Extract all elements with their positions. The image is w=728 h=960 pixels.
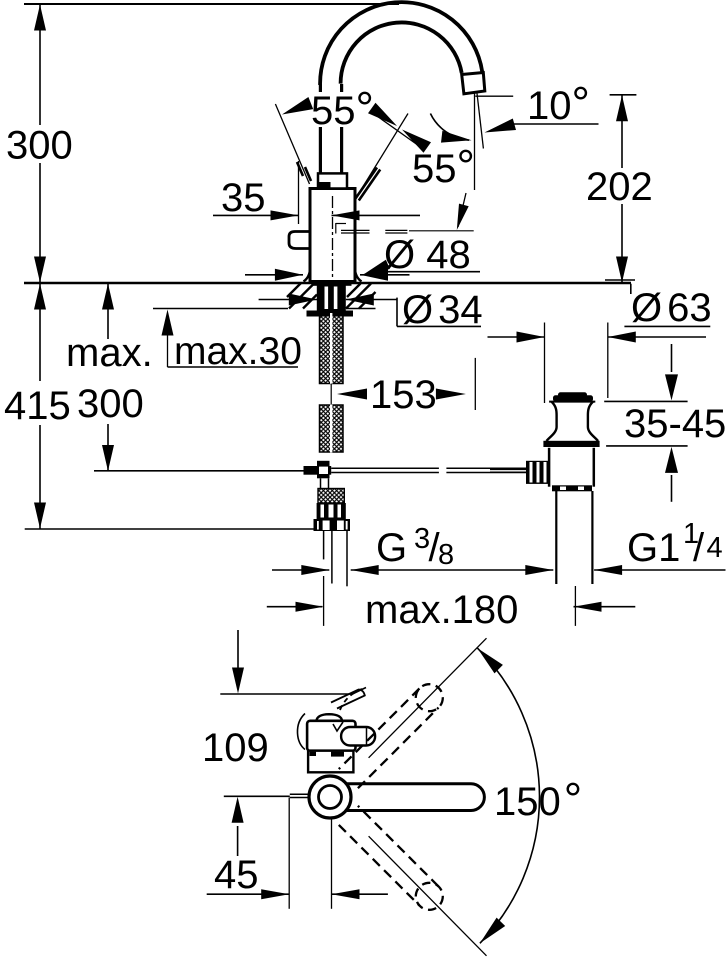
svg-text:/: / [693,526,705,570]
dashed lever upper position [339,684,443,788]
waste flange top line [549,401,595,403]
max180 left extension [323,576,325,626]
label D34 [402,288,483,332]
dimension D48 [245,269,410,281]
label G1 1/4 [627,518,723,570]
label max.30 [174,330,302,373]
body cap [318,173,347,188]
label 55deg middle [412,140,475,192]
angle leg lower [369,836,487,956]
label max. (for 415/300) [66,331,153,375]
svg-text:max.30: max.30 [174,330,302,373]
svg-text:300: 300 [6,124,73,168]
hose stub [318,489,344,504]
lever knob [341,727,375,746]
svg-text:max.: max. [66,331,153,375]
connector nut [314,519,351,531]
waste tailpipe [556,491,592,584]
deck hatch left [287,283,317,309]
faucet body [310,189,355,282]
svg-text:300: 300 [77,382,144,426]
rod into coupling [490,469,526,472]
lever axis reference line (phantom lever edge-on) [336,223,474,234]
spout aerator tip [462,73,485,94]
lower body block [308,751,353,773]
150deg arc [477,648,539,943]
55deg left construction line [275,104,309,184]
swivel outer circle [309,776,351,818]
55deg left dashes [297,162,311,181]
D34 label box [397,298,481,327]
dimension max.300 line [102,283,114,472]
dimension 35-45 top [604,344,687,401]
tilted lever handle [356,168,381,201]
vertical rod below tee [321,478,329,488]
body sketch left arcs [297,714,305,750]
label 300 (second) [77,382,144,426]
55deg middle leader arrow [457,193,469,230]
label 109 [202,726,269,770]
10 deg leader with arrow [485,119,599,133]
label max.180 [365,588,518,632]
dimension 300 line [34,4,46,283]
lever tip outline (raised position) [331,690,365,709]
label G3/8 [376,523,454,571]
10 deg top leg line [475,95,513,97]
dimension 109 [232,630,244,856]
label 415 [4,384,71,428]
label 55deg left [311,82,374,134]
body base skirt [304,268,362,282]
swivel inner circle [319,786,342,809]
lever construction line [356,114,408,199]
D48 label leader [363,260,480,275]
dimension G3/8 [272,565,553,575]
svg-text:G: G [376,526,407,570]
dimension 35 [213,210,420,220]
dimension 35-45 bottom [606,446,688,502]
braided hose upper [320,313,344,384]
D63 extension lines [545,323,608,404]
hose centerline gap [330,384,332,406]
label D48 [384,233,471,277]
stream vertical line [474,93,476,190]
valve dome [316,714,342,721]
45 extension lines [289,798,331,909]
svg-text:45: 45 [214,853,259,897]
svg-text:G1: G1 [627,526,680,570]
base tab [290,794,308,797]
counter top line [24,282,631,284]
rod coupling [526,461,549,484]
label 153 [370,373,437,417]
halo [308,92,378,127]
hose-end reference line (415 bottom) [25,528,314,530]
angle leg upper [369,638,487,758]
svg-text:153: 153 [370,373,437,417]
braided hose lower [320,405,344,453]
label 10deg [527,77,590,129]
base plate [312,281,352,286]
spout riser pipe [320,84,341,173]
55deg middle arc [430,114,471,143]
153 extension line [474,358,476,410]
pop-up rod line (left reference part) [94,470,304,472]
label 35 [221,176,266,220]
dimension max.415 line [34,283,46,529]
center reference line [224,795,290,797]
D63 label box [624,284,710,327]
body centerline [332,196,334,282]
label 45 [214,853,259,897]
dimension 45 [207,889,388,899]
tick line for 202 bottom [605,279,635,281]
label 150deg [494,773,582,825]
55deg cross line [371,112,425,150]
svg-text:55°: 55° [311,82,374,134]
label 300 (top left) [6,124,73,168]
waste body nut [552,485,592,491]
handle hook [289,232,311,249]
max180 right extension [574,586,576,626]
threaded shank [317,285,346,311]
svg-text:max.180: max.180 [365,588,518,632]
body check mark [333,722,343,731]
dimension 153 [337,389,466,400]
svg-text:202: 202 [586,165,653,209]
svg-text:8: 8 [438,539,454,571]
waste body [549,448,594,487]
deck bottom line [153,308,376,310]
label D63 [631,286,712,330]
stream angled line [477,92,484,148]
spout inner curve [341,22,462,83]
supply tube lines [324,531,347,586]
svg-text:35: 35 [221,176,266,220]
dimension max.30 arrow and box [162,310,299,368]
label 35-45 [624,402,726,446]
waste washer [543,441,599,447]
svg-text:415: 415 [4,384,71,428]
mounting washer [307,311,354,317]
label 202 [586,165,653,209]
dimension max.180 [267,602,636,612]
front reference line [220,688,366,695]
rod tee fitting [304,461,332,479]
35 extension line [298,161,300,224]
svg-text:55°: 55° [412,140,475,192]
55deg left arrow [282,97,313,115]
dimension G1 1/4 [525,565,725,575]
svg-text:150°: 150° [494,773,582,825]
raised lever dashed [340,689,362,710]
55deg cross arrows [368,103,431,153]
svg-text:35-45: 35-45 [624,402,726,446]
dimension D34 [259,294,397,306]
dimension 202 [610,95,637,283]
connector block [317,503,346,519]
svg-text:10°: 10° [527,77,590,129]
deck hatch right [346,284,376,309]
top reference line (spout apex level) [24,3,399,5]
dashed lever lower position [339,806,443,910]
body cap black band [317,182,331,189]
pop-up rod (double line) [331,468,526,472]
waste flange neck [547,402,599,441]
svg-text:4: 4 [707,532,723,564]
svg-text:109: 109 [202,726,269,770]
valve body sketch [307,721,355,751]
waste plug knob [553,392,593,401]
spout lever (solid) [347,784,484,811]
spout outer curve [320,2,482,85]
svg-text:Ø63: Ø63 [631,286,712,330]
dimension D63 [488,332,707,343]
svg-text:Ø 48: Ø 48 [384,233,471,277]
svg-text:Ø34: Ø34 [402,288,483,332]
